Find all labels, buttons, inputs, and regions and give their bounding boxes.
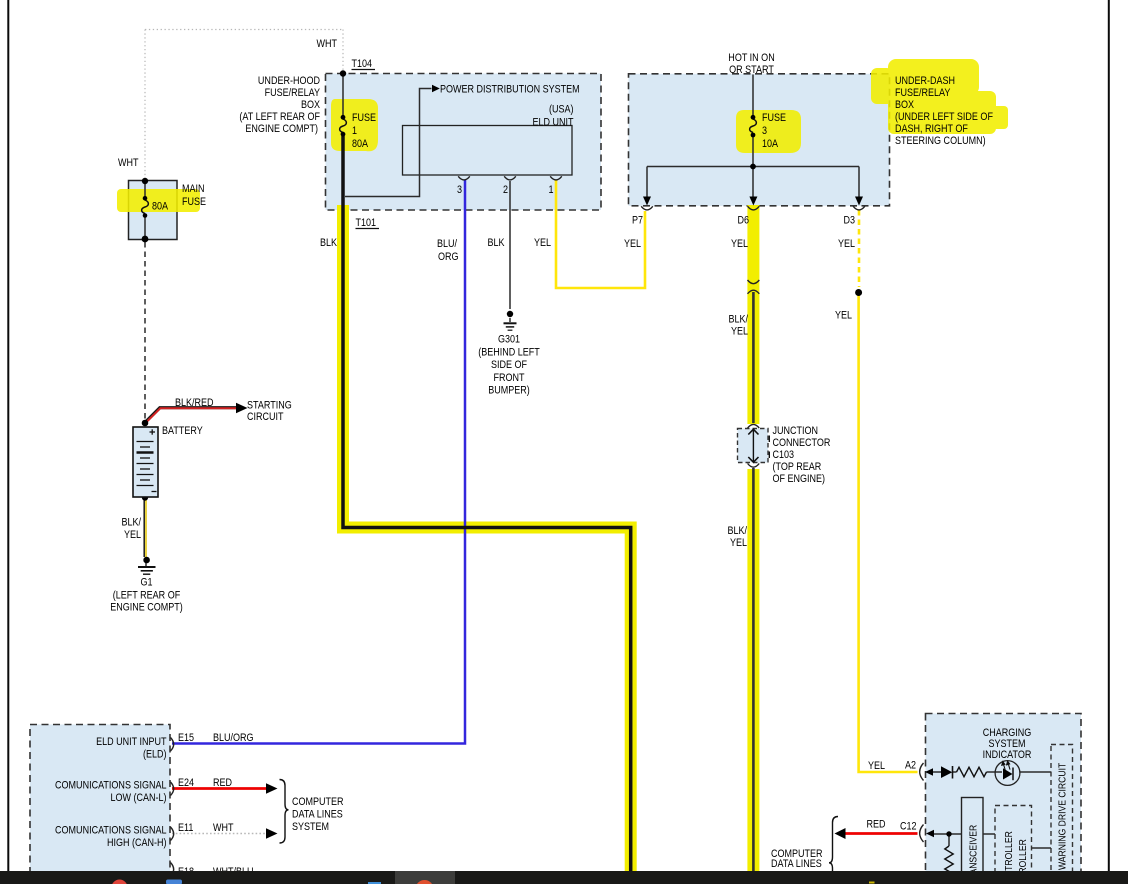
svg-text:(USA): (USA) xyxy=(549,104,574,116)
svg-text:G301: G301 xyxy=(498,334,520,346)
svg-text:BOX: BOX xyxy=(895,99,914,111)
svg-text:YEL: YEL xyxy=(730,537,747,549)
svg-text:SIDE OF: SIDE OF xyxy=(491,359,527,371)
svg-text:STEERING COLUMN): STEERING COLUMN) xyxy=(895,135,986,147)
svg-text:BLU/: BLU/ xyxy=(437,238,457,250)
svg-text:YEL: YEL xyxy=(835,310,852,322)
svg-text:2: 2 xyxy=(503,184,508,196)
svg-text:HOT IN ON: HOT IN ON xyxy=(728,52,774,64)
svg-text:(UNDER LEFT SIDE OF: (UNDER LEFT SIDE OF xyxy=(895,111,993,123)
svg-text:ELD UNIT: ELD UNIT xyxy=(532,117,573,129)
svg-text:FUSE/RELAY: FUSE/RELAY xyxy=(265,87,321,99)
svg-text:JUNCTION: JUNCTION xyxy=(773,425,819,437)
svg-text:T104: T104 xyxy=(352,58,373,70)
svg-text:BLK/: BLK/ xyxy=(727,525,747,537)
svg-text:(LEFT REAR OF: (LEFT REAR OF xyxy=(113,590,180,602)
svg-text:(ELD): (ELD) xyxy=(143,749,167,761)
svg-text:OR START: OR START xyxy=(729,64,774,76)
svg-text:(TOP REAR: (TOP REAR xyxy=(773,461,822,473)
svg-text:YEL: YEL xyxy=(534,237,551,249)
svg-text:DASH, RIGHT OF: DASH, RIGHT OF xyxy=(895,123,968,135)
svg-text:SYSTEM: SYSTEM xyxy=(292,821,329,833)
svg-text:E24: E24 xyxy=(178,777,194,789)
svg-text:ENGINE COMPT): ENGINE COMPT) xyxy=(110,602,183,614)
svg-text:CONNECTOR: CONNECTOR xyxy=(773,437,831,449)
svg-text:BLK/RED: BLK/RED xyxy=(175,397,214,409)
svg-text:MAIN: MAIN xyxy=(182,183,205,195)
svg-text:A2: A2 xyxy=(905,760,916,772)
svg-text:D3: D3 xyxy=(844,215,856,227)
svg-text:UNDER-HOOD: UNDER-HOOD xyxy=(258,75,320,87)
svg-text:YEL: YEL xyxy=(731,238,748,250)
svg-text:INDICATOR: INDICATOR xyxy=(983,749,1032,761)
svg-text:LOW (CAN-L): LOW (CAN-L) xyxy=(110,792,166,804)
svg-text:BLU/ORG: BLU/ORG xyxy=(213,732,254,744)
svg-text:YEL: YEL xyxy=(731,326,748,338)
svg-text:YEL: YEL xyxy=(868,760,885,772)
svg-text:ORG: ORG xyxy=(438,251,459,263)
svg-text:WARNING DRIVE CIRCUIT: WARNING DRIVE CIRCUIT xyxy=(1057,763,1069,870)
svg-text:OF ENGINE): OF ENGINE) xyxy=(773,473,826,485)
svg-text:(AT LEFT REAR OF: (AT LEFT REAR OF xyxy=(239,111,320,123)
svg-text:BLK/: BLK/ xyxy=(121,517,141,529)
svg-text:WHT: WHT xyxy=(213,822,234,834)
svg-text:POWER DISTRIBUTION SYSTEM: POWER DISTRIBUTION SYSTEM xyxy=(440,84,580,96)
svg-text:YEL: YEL xyxy=(124,529,141,541)
svg-text:RED: RED xyxy=(867,819,886,831)
svg-text:10A: 10A xyxy=(762,138,778,150)
svg-text:DATA LINES: DATA LINES xyxy=(292,809,343,821)
svg-text:G1: G1 xyxy=(140,577,152,589)
svg-text:1: 1 xyxy=(548,184,553,196)
svg-text:BOX: BOX xyxy=(301,99,320,111)
svg-text:WHT: WHT xyxy=(118,157,139,169)
svg-text:BLK/: BLK/ xyxy=(728,314,748,326)
svg-text:E15: E15 xyxy=(178,732,194,744)
svg-text:(BEHIND LEFT: (BEHIND LEFT xyxy=(478,347,540,359)
svg-text:FUSE: FUSE xyxy=(352,112,376,124)
svg-text:DATA LINES: DATA LINES xyxy=(771,858,822,870)
svg-text:FUSE: FUSE xyxy=(182,196,206,208)
svg-text:FRONT: FRONT xyxy=(493,372,524,384)
svg-text:YEL: YEL xyxy=(838,238,855,250)
svg-text:FUSE: FUSE xyxy=(762,112,786,124)
svg-text:C103: C103 xyxy=(773,449,795,461)
svg-text:1: 1 xyxy=(352,125,357,137)
svg-text:80A: 80A xyxy=(152,201,168,213)
svg-text:P7: P7 xyxy=(632,215,643,227)
svg-text:HIGH (CAN-H): HIGH (CAN-H) xyxy=(107,837,167,849)
svg-text:D6: D6 xyxy=(738,215,750,227)
svg-text:C12: C12 xyxy=(900,821,917,833)
svg-text:BLK: BLK xyxy=(320,237,337,249)
svg-text:CIRCUIT: CIRCUIT xyxy=(247,411,284,423)
svg-text:80A: 80A xyxy=(352,138,368,150)
svg-text:FUSE/RELAY: FUSE/RELAY xyxy=(895,87,951,99)
svg-text:BLK: BLK xyxy=(488,237,505,249)
svg-text:COMUNICATIONS SIGNAL: COMUNICATIONS SIGNAL xyxy=(55,780,167,792)
svg-text:UNDER-DASH: UNDER-DASH xyxy=(895,75,955,87)
svg-text:YEL: YEL xyxy=(624,238,641,250)
svg-text:COMPUTER: COMPUTER xyxy=(292,796,344,808)
svg-text:BUMPER): BUMPER) xyxy=(488,385,530,397)
svg-text:T101: T101 xyxy=(356,217,377,229)
svg-text:BATTERY: BATTERY xyxy=(162,425,203,437)
svg-text:WHT: WHT xyxy=(316,38,337,50)
svg-text:3: 3 xyxy=(762,125,767,137)
svg-text:STARTING: STARTING xyxy=(247,400,292,412)
svg-text:RED: RED xyxy=(213,777,232,789)
svg-text:ENGINE COMPT): ENGINE COMPT) xyxy=(245,123,318,135)
svg-text:ELD UNIT INPUT: ELD UNIT INPUT xyxy=(96,736,166,748)
svg-text:COMUNICATIONS SIGNAL: COMUNICATIONS SIGNAL xyxy=(55,825,167,837)
svg-text:E11: E11 xyxy=(178,822,194,834)
svg-text:3: 3 xyxy=(457,184,462,196)
